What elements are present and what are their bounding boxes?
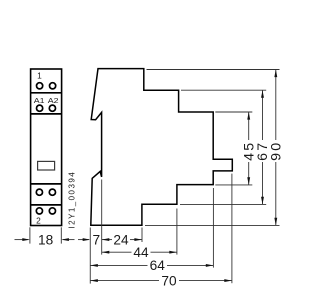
extension line 18 right <box>60 227 62 243</box>
terminal circle row3 left <box>36 189 42 195</box>
svg-text:90: 90 <box>269 141 285 161</box>
svg-text:64: 64 <box>150 258 166 273</box>
svg-text:44: 44 <box>133 245 149 260</box>
extension line top 45 <box>215 111 252 113</box>
extension line bottom 67 <box>180 203 266 205</box>
terminal circle row4 right <box>49 208 55 214</box>
extension line bottom 90 <box>145 224 280 226</box>
svg-text:1: 1 <box>37 71 42 81</box>
svg-text:18: 18 <box>38 232 54 247</box>
extension line 44 right <box>176 209 178 255</box>
terminal circle row1 right <box>50 83 56 89</box>
extension line side left <box>89 228 91 284</box>
side view profile <box>91 69 233 226</box>
dimension 24 <box>102 239 112 241</box>
svg-text:A1: A1 <box>34 96 45 105</box>
svg-text:I2Y1_00394: I2Y1_00394 <box>68 171 77 229</box>
extension line rail groove <box>101 180 103 255</box>
dimension 70 <box>90 280 159 282</box>
extension line 18 left <box>29 227 31 243</box>
terminal circle row4 left <box>36 208 42 214</box>
dimension 18 <box>15 239 29 241</box>
dimension 67 <box>262 90 264 204</box>
dimension 90 <box>275 70 277 226</box>
extension line 24 right <box>141 228 143 243</box>
dimension 64 <box>90 264 147 266</box>
svg-text:2: 2 <box>36 215 41 225</box>
front view outline <box>31 69 62 226</box>
dimension 7 <box>78 239 89 241</box>
extension line bottom 45 <box>215 184 252 186</box>
dimension 45 <box>248 112 250 185</box>
front view divider 3 <box>31 183 62 185</box>
front view divider 4 <box>31 204 62 206</box>
terminal circle row3 right <box>49 189 55 195</box>
dimension 44 <box>102 251 132 253</box>
indicator window <box>38 161 55 170</box>
terminal circle row2 right <box>49 105 55 111</box>
terminal circle row2 left <box>37 105 43 111</box>
svg-text:70: 70 <box>161 273 177 288</box>
svg-text:24: 24 <box>113 232 129 247</box>
extension line 64 right <box>212 188 214 268</box>
extension line top 90 <box>147 69 280 71</box>
extension line 70 right <box>231 174 233 284</box>
extension line top 67 <box>181 89 266 91</box>
svg-text:7: 7 <box>92 232 100 247</box>
front view divider 1 <box>31 92 62 94</box>
svg-text:A2: A2 <box>48 96 59 105</box>
terminal circle row1 left <box>37 83 43 89</box>
front view divider 2 <box>31 113 62 115</box>
